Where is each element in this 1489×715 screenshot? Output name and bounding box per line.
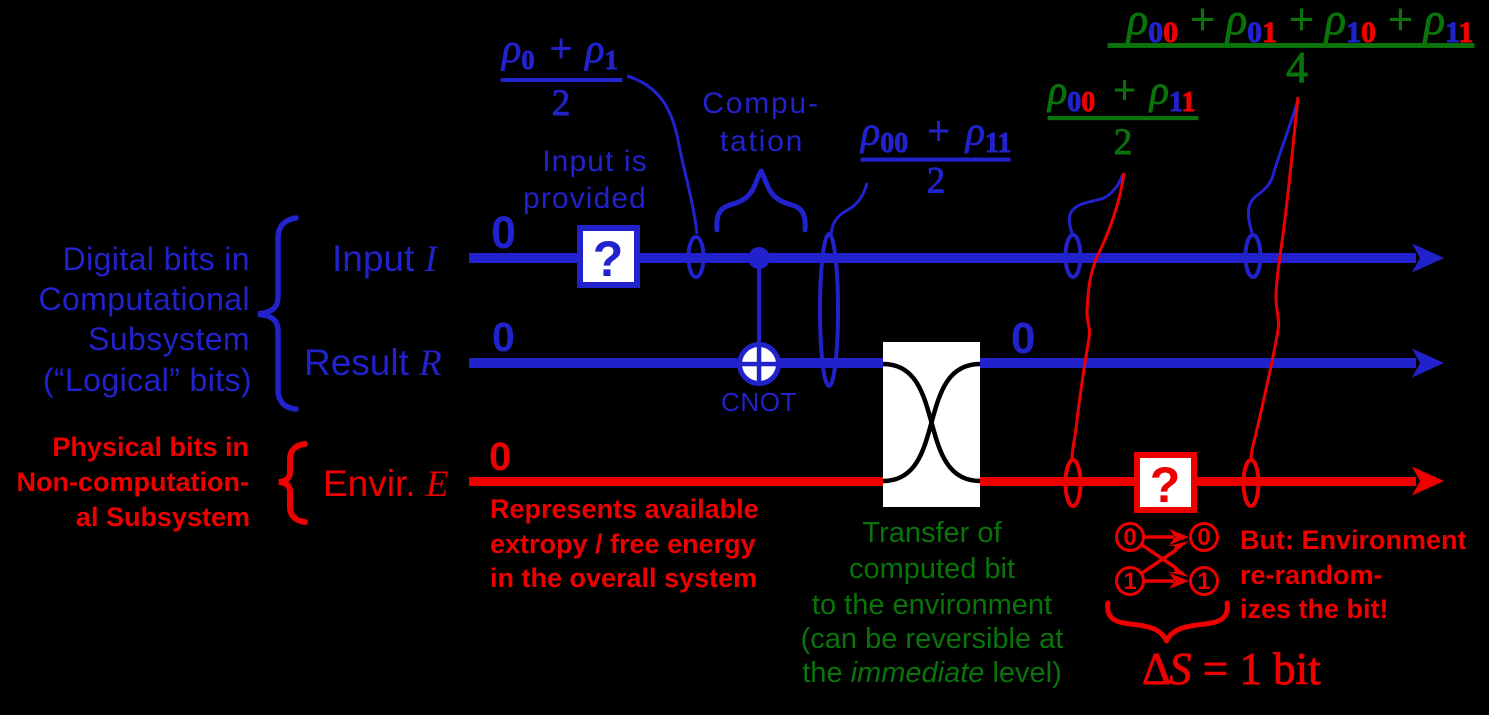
svg-text:2: 2 [552, 83, 571, 124]
svg-text:in the overall system: in the overall system [490, 563, 757, 593]
transfer box (swap to environment) [883, 342, 980, 507]
state ellipse on Envir wire (second) [1244, 460, 1259, 506]
svg-text:?: ? [593, 231, 624, 287]
svg-text:0: 0 [1011, 314, 1035, 363]
pointer curve: blue S from ellipse to green fraction 2 [1069, 174, 1123, 236]
re-randomization arrows [1142, 529, 1189, 589]
svg-text:extropy / free energy: extropy / free energy [490, 529, 756, 559]
state ellipse spanning Input and Result wires [820, 234, 838, 386]
pointer curve: fraction1 to ellipse1 [627, 76, 697, 234]
formula: (rho0 + rho1)/2 [500, 26, 622, 124]
svg-text:Represents available: Represents available [490, 494, 759, 524]
state ellipse on Input wire (second, right section) [1246, 235, 1261, 277]
wire: Result R (left of transfer box) [469, 358, 883, 368]
state ellipse on Input wire (after ? box) [689, 237, 704, 277]
svg-text:4: 4 [1286, 43, 1308, 92]
pointer curve: red from green fraction 2 down to Envir ellipse [1072, 173, 1124, 459]
label: Physical bits block [17, 432, 250, 532]
svg-text:?: ? [1150, 457, 1181, 513]
brace: computational subsystem [258, 218, 296, 409]
svg-text:Input I: Input I [332, 238, 439, 280]
svg-text:0: 0 [1197, 524, 1210, 551]
svg-text:Envir. E: Envir. E [323, 463, 448, 505]
svg-text:ρ0+ρ1: ρ0+ρ1 [500, 26, 618, 75]
re-randomization circles (0,1 states) [1117, 524, 1218, 595]
svg-text:Computational: Computational [38, 281, 250, 317]
svg-text:0: 0 [1123, 524, 1136, 551]
label: Represents available extropy [490, 494, 759, 593]
svg-text:0: 0 [491, 207, 516, 258]
svg-text:Digital bits in: Digital bits in [63, 241, 250, 277]
svg-text:to the environment: to the environment [812, 589, 1052, 621]
brace: under re-randomization (cusp down) [1108, 603, 1228, 641]
svg-text:(“Logical” bits): (“Logical” bits) [43, 362, 252, 398]
formula: (rho00 + rho11)/2 green-red [1046, 68, 1198, 164]
arrowhead: Input I [1412, 244, 1444, 273]
formula: (rho00 + rho01 + rho10 + rho11)/4 [1108, 0, 1474, 92]
svg-text:Compu-: Compu- [702, 87, 820, 120]
svg-text:But: Environment: But: Environment [1240, 525, 1467, 555]
svg-text:the immediate level): the immediate level) [802, 657, 1062, 689]
svg-text:al Subsystem: al Subsystem [76, 502, 250, 532]
state ellipse on Envir wire (first) [1066, 460, 1081, 506]
svg-text:Subsystem: Subsystem [88, 321, 250, 357]
svg-text:2: 2 [1114, 122, 1133, 163]
swap curve: Result to Envir [883, 364, 980, 481]
svg-text:Physical bits in: Physical bits in [52, 432, 249, 462]
svg-text:ΔS = 1 bit: ΔS = 1 bit [1142, 644, 1321, 694]
svg-text:CNOT: CNOT [721, 387, 797, 417]
pointer curve: red from fraction 4 down to second Envir ellipse [1251, 97, 1298, 459]
formula: (rho00 + rho11)/2 blue [859, 109, 1011, 202]
svg-text:provided: provided [523, 182, 647, 215]
brace: computation (cusp up) [717, 171, 805, 230]
svg-text:Transfer of: Transfer of [862, 517, 1002, 549]
svg-text:Result R: Result R [304, 342, 442, 384]
svg-text:2: 2 [927, 161, 946, 202]
svg-text:0: 0 [489, 435, 511, 479]
gate: CNOT control dot [748, 247, 770, 269]
label: Digital bits block [38, 241, 252, 398]
svg-text:izes the bit!: izes the bit! [1240, 594, 1389, 624]
svg-text:1: 1 [1123, 568, 1136, 595]
svg-text:tation: tation [720, 125, 804, 158]
pointer curve: blue S from second ellipse to fraction 4 [1248, 100, 1298, 236]
svg-text:Non-computation-: Non-computation- [17, 467, 249, 497]
svg-text:0: 0 [492, 314, 515, 360]
state ellipse on Input wire (first, right section) [1066, 235, 1081, 277]
wire: Envir. E (left of transfer box) [469, 477, 883, 486]
pointer curve: blue fraction2 to tall ellipse [831, 183, 867, 235]
svg-text:computed bit: computed bit [849, 553, 1015, 585]
re-randomization digits [1123, 524, 1210, 595]
wire: Result R (right of transfer box) [980, 358, 1416, 368]
svg-text:Input is: Input is [542, 145, 648, 178]
wire: Envir. E (right of transfer box) [980, 477, 1416, 486]
svg-text:1: 1 [1197, 568, 1210, 595]
arrowhead: Envir. E [1412, 467, 1444, 496]
label: Transfer of computed bit (green) [801, 517, 1064, 689]
gate: ? box on Envir wire [1137, 455, 1194, 510]
svg-text:(can be reversible at: (can be reversible at [801, 623, 1064, 655]
label: But Environment re-randomizes [1240, 525, 1467, 624]
arrowhead: Result R [1412, 349, 1444, 378]
gate: CNOT target [740, 345, 779, 384]
brace: non-computational subsystem [279, 444, 305, 522]
gate: CNOT vertical line [757, 258, 761, 364]
gate: ? box on Input wire [580, 228, 637, 285]
wire: Input I [469, 253, 1416, 263]
swap curve: Envir to Result [883, 364, 980, 481]
svg-text:re-random-: re-random- [1240, 560, 1383, 590]
